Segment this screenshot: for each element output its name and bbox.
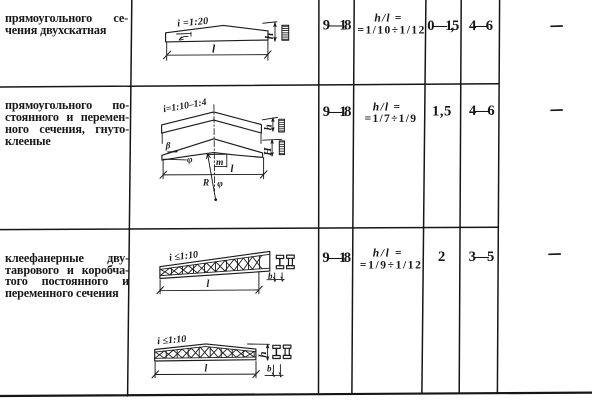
svg-text:m: m bbox=[216, 158, 223, 168]
row3 col7 dash bbox=[549, 253, 560, 255]
phi reference line bbox=[164, 158, 187, 161]
b dimension (row3 bottom) bbox=[265, 365, 283, 377]
radius line with arrowhead bbox=[207, 154, 216, 200]
table horizontal rule row1/row2 bbox=[0, 84, 498, 87]
web lattice bbox=[155, 347, 254, 358]
beam outline bbox=[160, 251, 270, 278]
bottom flange inner line bbox=[155, 357, 256, 358]
svg-text:R: R bbox=[202, 179, 209, 189]
section symbol (hatched rectangle) bbox=[282, 25, 289, 40]
beam inner top line bbox=[177, 32, 192, 36]
svg-text:φ: φ bbox=[187, 155, 193, 165]
h dimension line with arrows (top beam) bbox=[272, 118, 274, 131]
svg-text:=1/7÷1/9: =1/7÷1/9 bbox=[365, 113, 417, 125]
svg-text:h: h bbox=[264, 33, 276, 39]
svg-text:h/l =: h/l = bbox=[374, 13, 401, 25]
svg-text:l: l bbox=[231, 164, 234, 175]
box-section symbol bbox=[283, 345, 291, 348]
svg-text:0—1,5: 0—1,5 bbox=[427, 18, 459, 34]
table horizontal rule row2/row3 bbox=[0, 227, 498, 229]
table vertical rule x1 bbox=[128, 0, 132, 396]
H dimension line with arrows bbox=[271, 140, 273, 156]
H dimension extension bar bbox=[263, 138, 282, 141]
l dimension oblique ticks (row2) bbox=[160, 171, 267, 179]
top flange inner line bbox=[160, 254, 270, 269]
svg-text:3—5: 3—5 bbox=[469, 249, 495, 265]
svg-text:1,5: 1,5 bbox=[432, 104, 451, 120]
svg-text:h/l =: h/l = bbox=[373, 102, 400, 114]
svg-text:h: h bbox=[262, 124, 274, 130]
slope mark arrow bbox=[179, 36, 188, 40]
support ticks below top beam bbox=[162, 134, 261, 144]
l dimension line bbox=[167, 54, 268, 57]
l dimension (row3 top) bbox=[160, 272, 259, 294]
h dimension (top beam) extension bar bbox=[262, 117, 277, 119]
beta reference line bbox=[168, 151, 178, 153]
b dimension (flange width) bbox=[267, 273, 284, 282]
left column cell text row 2 bbox=[5, 100, 129, 148]
h dimension line with arrows bbox=[267, 344, 269, 360]
svg-text:l: l bbox=[207, 279, 210, 290]
svg-text:b: b bbox=[267, 364, 272, 374]
l dimension extension lines bbox=[167, 41, 268, 61]
svg-text:i=1:10–1:4: i=1:10–1:4 bbox=[162, 97, 207, 115]
bottom beam (variable depth, curved soffit) bbox=[162, 139, 263, 160]
svg-text:H: H bbox=[263, 147, 274, 157]
svg-text:4—6: 4—6 bbox=[469, 103, 495, 119]
svg-text:h: h bbox=[257, 351, 269, 357]
svg-text:β: β bbox=[165, 141, 171, 151]
svg-text:l: l bbox=[212, 44, 216, 56]
m dimension bracket bbox=[207, 154, 227, 167]
I-section symbol bbox=[276, 255, 283, 258]
l dimension oblique ticks bbox=[164, 51, 272, 59]
l dimension line (row2) bbox=[163, 173, 264, 176]
svg-text:=1/9÷1/12: =1/9÷1/12 bbox=[360, 260, 421, 272]
bottom flange inner line bbox=[160, 268, 270, 276]
top beam (constant depth, bent) bbox=[162, 112, 262, 133]
centre dash-dot line bbox=[213, 105, 216, 191]
beam outline (double-pitched rectangular beam) bbox=[166, 25, 268, 42]
table vertical rule x3 bbox=[352, 0, 354, 393]
table vertical rule x6 bbox=[497, 0, 499, 393]
svg-text:4—6: 4—6 bbox=[469, 18, 493, 34]
svg-text:9—18: 9—18 bbox=[323, 104, 352, 120]
web stiffener ribs bbox=[166, 347, 254, 358]
left column cell text row 1 bbox=[5, 13, 128, 37]
svg-text:=1/10÷1/12: =1/10÷1/12 bbox=[357, 24, 424, 36]
row2 col7 dash bbox=[551, 109, 562, 111]
table vertical rule x2 bbox=[318, 0, 320, 393]
svg-text:b: b bbox=[268, 271, 273, 281]
top flange inner line bbox=[155, 347, 256, 353]
table bottom rule bbox=[0, 393, 592, 396]
h dimension extension line bbox=[248, 343, 270, 345]
section symbol top beam (hatched) bbox=[279, 119, 285, 132]
l dimension (row3 bottom) bbox=[155, 361, 256, 378]
box-section symbol bbox=[287, 255, 295, 258]
svg-text:l: l bbox=[205, 364, 208, 375]
section symbol bottom beam (hatched) bbox=[279, 141, 284, 155]
table vertical rule x5 bbox=[459, 0, 461, 393]
table vertical rule x4 bbox=[422, 0, 426, 393]
web stiffener ribs bbox=[172, 256, 260, 275]
h dimension line with arrows bbox=[274, 23, 276, 42]
I-section symbol bbox=[273, 345, 280, 348]
svg-text:i ≤1:10: i ≤1:10 bbox=[157, 334, 187, 347]
beam outline bbox=[155, 344, 256, 361]
svg-text:φ: φ bbox=[217, 180, 223, 190]
svg-text:h/l =: h/l = bbox=[373, 248, 402, 260]
h dimension extension bar bbox=[263, 22, 277, 24]
svg-text:9—18: 9—18 bbox=[322, 250, 351, 266]
left column cell text row 3 bbox=[5, 253, 129, 301]
svg-text:2: 2 bbox=[438, 249, 445, 265]
svg-text:9—18: 9—18 bbox=[323, 18, 352, 34]
web lattice bbox=[161, 256, 262, 276]
l dimension extensions (row2) bbox=[163, 158, 264, 179]
row1 col7 dash bbox=[551, 25, 562, 27]
